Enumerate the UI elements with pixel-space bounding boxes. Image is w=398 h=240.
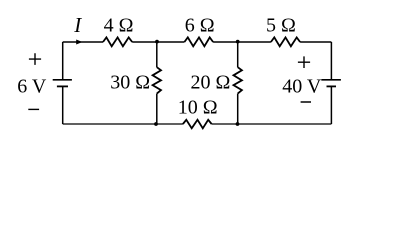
battery V2 plus sign <box>298 56 310 68</box>
wire bottom (return path) <box>63 123 332 125</box>
svg-text:6 Ω: 6 Ω <box>185 15 215 37</box>
svg-text:4 Ω: 4 Ω <box>104 15 134 37</box>
wire branch node A to node C (30 ohm leads) <box>156 42 158 124</box>
junction node D (bottom of 20 ohm) <box>236 122 240 126</box>
wire right vertical (battery V2 leads) <box>330 42 332 124</box>
svg-text:30 Ω: 30 Ω <box>110 71 150 93</box>
junction node C (bottom of 30 ohm) <box>154 122 158 126</box>
resistor R1 4 ohm (zigzag) <box>103 37 132 46</box>
battery V1 minus sign <box>28 108 39 110</box>
svg-text:I: I <box>73 13 82 37</box>
wire left vertical (battery V1 leads) <box>62 42 64 124</box>
battery V2 minus sign <box>301 101 311 103</box>
svg-text:10 Ω: 10 Ω <box>178 97 218 119</box>
battery V1 6V negative plate (short) <box>57 85 68 87</box>
svg-text:20 Ω: 20 Ω <box>191 71 231 93</box>
svg-text:6 V: 6 V <box>17 76 47 98</box>
wire top (from left battery + terminal across to right battery) <box>63 41 332 43</box>
battery V1 6V positive plate (long) <box>53 79 72 81</box>
resistor R2 6 ohm (zigzag) <box>184 37 213 46</box>
battery V1 plus sign <box>29 53 41 65</box>
resistor R3 5 ohm (zigzag) <box>271 37 300 46</box>
svg-text:5 Ω: 5 Ω <box>266 15 296 37</box>
current arrow I <box>76 40 82 45</box>
resistor R5 20 ohm vertical (zigzag) <box>234 67 242 93</box>
svg-text:40 V: 40 V <box>282 75 322 97</box>
battery V2 40V negative plate (short) <box>327 85 337 87</box>
junction node A (top of 30 ohm) <box>155 40 159 44</box>
junction node B (top of 20 ohm) <box>236 40 240 44</box>
battery V2 40V positive plate (long) <box>321 79 341 81</box>
wire branch node B to node D (20 ohm leads) <box>237 42 239 124</box>
resistor R6 10 ohm (zigzag) <box>183 120 212 129</box>
resistor R4 30 ohm vertical (zigzag) <box>153 67 161 93</box>
